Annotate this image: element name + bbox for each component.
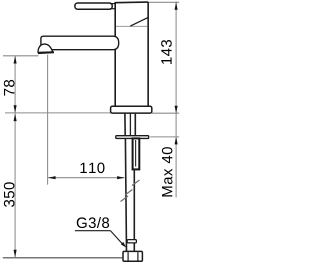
shank line middle [129,113,131,136]
body top edge [115,1,149,4]
label 350 [4,182,15,207]
label 110 [80,163,104,174]
washer [116,136,149,139]
hex nut [123,251,142,261]
arrow 110 right [117,176,125,179]
label G3/8 [77,217,109,228]
nut facet left [127,252,129,260]
bottom reference line [3,257,123,259]
label 143 [161,40,172,64]
wire: extension line vertical at spout tip (110 left) [47,55,49,185]
dimension line 110 [48,177,124,179]
spout tip dome [38,44,53,52]
arrow 350 top (up, below deck) [14,114,17,122]
arrow Max40 bottom (up, below washer line) [175,137,178,145]
supply pipe left edge [125,138,126,251]
break tick 3 [121,196,129,202]
wire: extension line outlet level left [3,55,38,57]
spout tube [41,36,119,50]
dimension line 78 [14,56,16,112]
wire: extension line deck right [152,112,179,114]
arrow 78 bottom (down) [14,105,17,113]
seam line on body [116,25,147,27]
supply pipe right edge [133,169,135,252]
G3/8 leader arrow [121,242,126,248]
spout tip base thick line [38,51,54,54]
body left edge upper segment [114,3,116,37]
break tick 1 [132,180,140,186]
base flange [111,106,152,113]
dimension line right vertical (143 / Max 40) [175,1,177,197]
diagonal cap line on body [130,18,148,27]
G3/8 leader line [111,231,123,244]
arrow 78 top (up) [14,56,17,64]
handle lever [75,3,112,9]
body right edge [147,2,149,106]
wire: extension line washer bottom right [150,136,179,138]
wire: extension line top right (spout top level) [149,1,180,3]
dimension line 350 [14,114,16,258]
wire: extension line deck left [5,112,110,114]
handle neck lines [110,3,116,5]
break tick 2 [125,190,133,196]
label 78 [4,80,15,96]
shank line left [124,113,126,136]
arrow 110 left [48,176,56,179]
arrow 143 bottom / Max40 top (down at deck) [175,106,178,114]
nut facet right [137,252,139,260]
label Max 40 [162,147,173,196]
threaded shank [133,138,140,169]
body fill [115,2,148,106]
hose ferrule [127,240,136,243]
shank line right [134,113,136,136]
G3/8 underline [75,230,111,232]
arrow 143 top (up) [175,2,178,10]
faucet dimensional diagram 180x263 [0,0,180,263]
arrow 350 bottom (down) [14,250,17,258]
thread inner line [135,140,137,167]
body left edge lower segment [114,50,116,107]
